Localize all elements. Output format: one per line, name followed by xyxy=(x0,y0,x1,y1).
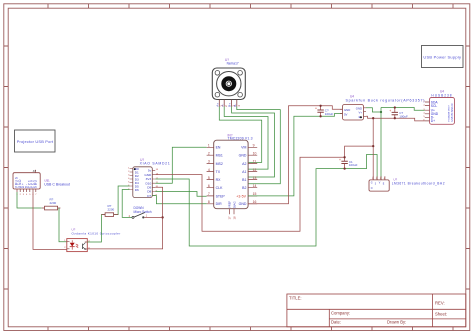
svg-text:B1: B1 xyxy=(242,178,246,182)
svg-text:Drawn By:: Drawn By: xyxy=(387,320,406,325)
svg-text:RX: RX xyxy=(216,178,222,182)
svg-text:10: 10 xyxy=(253,152,257,156)
wire Xiao D8 to TMC STEP xyxy=(155,192,206,197)
wire 5V node down to LM3671 pin 3 xyxy=(380,108,382,180)
svg-text:+: + xyxy=(389,109,391,113)
svg-text:USB Power Supply: USB Power Supply xyxy=(423,54,461,59)
right stubs xyxy=(152,170,155,195)
wire Xiao GND to LM3671 pin1 (GND rail) xyxy=(155,146,373,231)
svg-text:9: 9 xyxy=(253,144,255,148)
motor pins xyxy=(219,100,237,107)
svg-text:Date:: Date: xyxy=(331,320,341,325)
svg-text:DIR: DIR xyxy=(216,202,223,206)
svg-text:A?: A? xyxy=(33,169,37,173)
left pin stubs 1-8 xyxy=(207,147,214,204)
wire R1 to opto anode xyxy=(59,208,67,242)
svg-text:Sheet:: Sheet: xyxy=(435,312,447,317)
svg-text:2200: 2200 xyxy=(50,201,57,205)
svg-text:Sparkfun Buck regulator(AP6335: Sparkfun Buck regulator(AP63357) xyxy=(346,98,426,102)
svg-text:+: + xyxy=(339,158,341,162)
left stubs D0-D6 xyxy=(130,169,133,190)
wire motor A to TMC pin11 xyxy=(219,107,261,163)
svg-text:Ozdamla K1010 Optocoupler: Ozdamla K1010 Optocoupler xyxy=(72,231,121,235)
wire buck output to 5V node xyxy=(366,108,381,112)
junction at 5V node xyxy=(380,111,382,113)
svg-text:11: 11 xyxy=(253,160,257,164)
wire TMC pin16 GND to buck GND xyxy=(248,106,342,204)
wire motor A to TMC pin12 xyxy=(224,107,268,170)
label box: Projector USB Port xyxy=(15,130,56,152)
svg-text:1: 1 xyxy=(208,144,210,148)
USB C breakout U$1 xyxy=(13,169,70,196)
wire motor B to TMC pin13 xyxy=(232,107,275,178)
optocoupler U? Ozdamla K1010 xyxy=(64,228,120,252)
svg-text:HUSB238 VOUT: HUSB238 VOUT xyxy=(448,104,450,121)
wire LM3671 pin1 up to buck En rail xyxy=(372,118,374,180)
svg-text:+3-5V: +3-5V xyxy=(236,194,246,198)
junction GND rail above LM3671 xyxy=(372,145,374,147)
svg-text:USB PD SINK IC: USB PD SINK IC xyxy=(451,103,454,121)
svg-text:Projector USB Port: Projector USB Port xyxy=(17,139,54,144)
MCU U? XIAO SAMD21 xyxy=(128,158,170,198)
svg-text:REV:: REV: xyxy=(435,301,445,306)
svg-text:18: 18 xyxy=(232,216,236,220)
svg-text:100uF: 100uF xyxy=(325,112,334,116)
svg-text:A2: A2 xyxy=(242,162,246,166)
wire Xiao D6 to micro switch xyxy=(122,190,132,218)
svg-text:100uF: 100uF xyxy=(349,163,358,167)
svg-text:6: 6 xyxy=(208,184,210,188)
wire USB C pin6 to opto cathode xyxy=(33,192,67,249)
svg-text:14: 14 xyxy=(253,184,257,188)
buck regulator U4 Sparkfun Buck regulator(AP63357) xyxy=(340,95,425,120)
svg-text:VREF: VREF xyxy=(228,200,232,208)
title block xyxy=(287,294,466,327)
resistor R1 2200 xyxy=(42,198,61,210)
USB PD sink U4 HUSB238 xyxy=(423,90,454,125)
svg-text:GND: GND xyxy=(144,173,152,177)
junction GND rail at buck En row xyxy=(372,117,374,119)
svg-text:GND: GND xyxy=(239,154,247,158)
svg-text:D7: D7 xyxy=(147,194,151,198)
svg-text:+: + xyxy=(315,107,317,111)
svg-text:A1: A1 xyxy=(242,170,246,174)
wire Xiao D9 to opto emitter / switch junction xyxy=(87,187,162,249)
wire TMC pin15 to buck 5V xyxy=(248,114,342,196)
svg-text:5: 5 xyxy=(208,176,210,180)
svg-text:VM: VM xyxy=(241,146,246,150)
svg-text:MS1: MS1 xyxy=(216,154,223,158)
wire 5V node to HUSB238 V+ pin xyxy=(381,108,425,111)
regulator board U? LM3671 Breakoutboard_BH2 xyxy=(369,176,445,191)
svg-text:Nema17: Nema17 xyxy=(227,62,239,66)
wire opto collector to R2 xyxy=(87,215,105,242)
svg-text:LM3671 Breakoutboard_BH2: LM3671 Breakoutboard_BH2 xyxy=(392,182,445,186)
svg-text:2200: 2200 xyxy=(108,207,115,211)
svg-text:5V: 5V xyxy=(344,112,348,116)
svg-text:SBU: SBU xyxy=(34,179,38,188)
wire Xiao D10 to TMC EN xyxy=(155,147,206,183)
svg-text:HUSB238: HUSB238 xyxy=(431,93,452,97)
wire Xiao 3V3 to LM3671 pin2 (3.3V rail) xyxy=(155,155,377,247)
svg-text:SCL: SCL xyxy=(431,104,438,108)
svg-text:G: G xyxy=(371,183,373,185)
svg-text:17: 17 xyxy=(228,216,232,220)
svg-text:EN: EN xyxy=(216,146,221,150)
svg-text:4: 4 xyxy=(208,168,210,172)
capacitor C? 100uF buck input xyxy=(315,105,333,118)
svg-text:7: 7 xyxy=(208,192,210,196)
svg-text:13: 13 xyxy=(253,176,257,180)
svg-text:B2: B2 xyxy=(242,186,246,190)
micro switch DOWN xyxy=(129,206,152,218)
svg-text:100uF: 100uF xyxy=(399,114,408,118)
bottom stubs 17-18 xyxy=(230,209,235,215)
svg-text:DIAG: DIAG xyxy=(232,201,236,208)
svg-text:D+: D+ xyxy=(431,119,435,123)
svg-text:USB C Breakout: USB C Breakout xyxy=(44,182,70,186)
wire buck En rail to HUSB GND xyxy=(366,116,425,121)
label box: USB Power Supply xyxy=(422,46,464,68)
svg-text:XIAO SAMD21: XIAO SAMD21 xyxy=(140,162,171,166)
motor U? Nema17 xyxy=(212,58,245,107)
resistor R2 2200 xyxy=(101,204,118,216)
wire switch to D9 red line xyxy=(144,216,162,218)
svg-text:2: 2 xyxy=(208,152,210,156)
driver U? TMC2209 V1.3 xyxy=(207,133,258,219)
svg-text:3: 3 xyxy=(208,160,210,164)
svg-text:TX: TX xyxy=(216,170,221,174)
wire USB C pin1 to R1 xyxy=(17,192,42,208)
svg-text:V+: V+ xyxy=(359,111,363,115)
capacitor C? 100uF HUSB output xyxy=(389,106,408,119)
junction switch to D9 net xyxy=(161,216,163,218)
svg-text:Company:: Company: xyxy=(331,311,350,316)
wire Xiao D5 to R2 xyxy=(114,186,130,215)
svg-text:CLK: CLK xyxy=(216,186,223,190)
svg-text:D6: D6 xyxy=(135,188,139,192)
svg-text:MS2: MS2 xyxy=(216,162,223,166)
svg-text:GND: GND xyxy=(239,202,247,206)
wire motor B to TMC pin14 xyxy=(237,107,280,184)
svg-text:TITLE:: TITLE: xyxy=(289,295,302,300)
svg-text:12: 12 xyxy=(253,168,257,172)
svg-text:STEP: STEP xyxy=(216,194,226,198)
capacitor C1 100uF 3.3V rail xyxy=(339,156,358,170)
right pin stubs 9-16 xyxy=(248,147,257,204)
wire Xiao D7 to TMC DIR xyxy=(152,196,206,204)
svg-text:8: 8 xyxy=(208,200,210,204)
